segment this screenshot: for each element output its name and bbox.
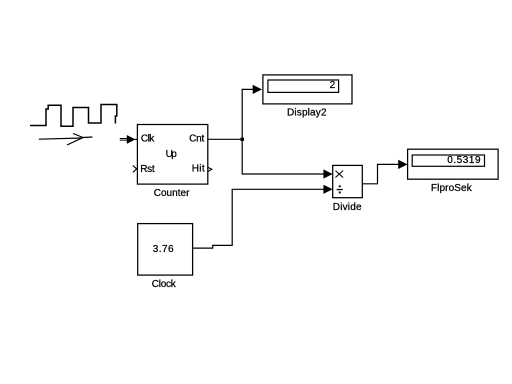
Divide divide symbol: [337, 185, 343, 193]
Counter Clk input stub to block: [135, 138, 137, 140]
pulse waveform annotation: [30, 105, 117, 127]
Counter Clk input signal stub (double line): [120, 139, 128, 141]
svg-text:0.5319: 0.5319: [447, 155, 481, 166]
svg-text:Rst: Rst: [140, 164, 155, 175]
svg-text:Display2: Display2: [287, 108, 327, 119]
FlproSek value field: [412, 155, 484, 166]
block Display2 outer box: [263, 75, 352, 104]
Rst unconnected port chevron: [133, 166, 137, 173]
block Counter: [137, 125, 207, 185]
wire Clock to Divide input 2: [193, 189, 324, 248]
svg-text:Clock: Clock: [152, 279, 177, 290]
svg-text:2: 2: [330, 80, 336, 91]
svg-text:3.76: 3.76: [153, 244, 174, 255]
arrowhead into Divide input 1: [323, 169, 332, 178]
Hit unconnected port chevron: [208, 167, 212, 171]
wire Cnt output to junction: [208, 138, 242, 140]
wire Divide output to FlproSek: [362, 164, 398, 183]
svg-text:Cnt: Cnt: [189, 133, 204, 144]
svg-text:Clk: Clk: [141, 134, 155, 145]
Counter Clk input arrowhead: [127, 135, 136, 144]
wire junction to Display2: [242, 89, 253, 139]
block Clock: [138, 224, 193, 276]
Divide multiply symbol: [335, 171, 343, 178]
Display2 value field: [268, 80, 339, 92]
arrow annotation shaft: [39, 137, 93, 139]
arrow annotation head: [67, 134, 83, 146]
svg-text:Up: Up: [166, 149, 178, 160]
svg-text:FlproSek: FlproSek: [431, 183, 473, 194]
svg-text:Hit: Hit: [192, 163, 205, 174]
block Divide: [333, 165, 363, 197]
svg-text:Divide: Divide: [333, 202, 362, 213]
block FlproSek outer box: [408, 149, 499, 179]
junction node: [241, 138, 245, 141]
arrowhead into Display2: [253, 85, 262, 94]
svg-text:Counter: Counter: [154, 188, 190, 199]
wire junction to Divide input 1: [242, 139, 324, 174]
arrowhead into FlproSek: [398, 160, 407, 169]
arrowhead into Divide input 2: [323, 185, 332, 194]
